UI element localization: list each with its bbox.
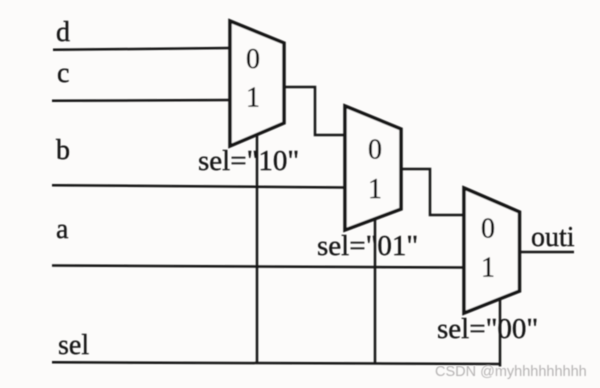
wire c (input c to mux U1 pin 1): [52, 99, 230, 102]
svg-text:c: c: [57, 58, 69, 89]
mux U2: [345, 106, 401, 230]
svg-text:1: 1: [481, 253, 495, 284]
mux U3 pin label 1: [481, 253, 495, 284]
input label b: [56, 135, 70, 166]
value label sel="01": [317, 230, 418, 262]
svg-text:d: d: [56, 17, 70, 48]
wire U1 output to mux U2 pin 0: [284, 87, 345, 135]
input label d: [56, 17, 70, 48]
mux U1 pin label 1: [246, 83, 260, 114]
svg-text:0: 0: [246, 44, 260, 75]
wire sel (select bus): [52, 362, 500, 364]
wire d (input d to mux U1 pin 0): [53, 48, 230, 50]
svg-text:sel="10": sel="10": [198, 145, 299, 177]
wire U3 output (outi): [520, 251, 575, 254]
value label sel="10": [198, 145, 299, 177]
mux U2 pin label 1: [368, 174, 382, 205]
value label sel="00": [437, 313, 538, 345]
wire U1 select (from sel bus to mux U1): [256, 134, 259, 363]
wire b (input b to mux U2 pin 1): [52, 185, 345, 187]
mux U1 pin label 0: [246, 44, 260, 75]
mux U3: [464, 188, 520, 313]
mux U1: [230, 21, 284, 146]
svg-text:0: 0: [368, 135, 382, 166]
svg-text:b: b: [56, 135, 70, 166]
svg-text:1: 1: [368, 174, 382, 205]
input label sel: [58, 330, 89, 361]
wire U3 select (from sel bus to mux U3): [499, 298, 500, 365]
svg-text:a: a: [56, 214, 69, 245]
svg-text:sel: sel: [58, 330, 89, 361]
input label a: [56, 214, 69, 245]
svg-text:sel="00": sel="00": [437, 313, 538, 345]
svg-text:outi: outi: [531, 222, 575, 253]
wire U2 select (from sel bus to mux U2): [374, 218, 377, 364]
output label outi: [531, 222, 575, 253]
mux U3 pin label 0: [481, 214, 495, 245]
svg-text:sel="01": sel="01": [317, 230, 418, 262]
watermark CSDN @myhhhhhhhhh: [435, 364, 587, 380]
wire U2 output to mux U3 pin 0: [401, 169, 464, 215]
mux U2 pin label 0: [368, 135, 382, 166]
svg-text:1: 1: [246, 83, 260, 114]
svg-text:0: 0: [481, 214, 495, 245]
wire a (input a to mux U3 pin 1): [52, 266, 464, 268]
svg-text:CSDN @myhhhhhhhhh: CSDN @myhhhhhhhhh: [435, 364, 587, 380]
input label c: [57, 58, 69, 89]
